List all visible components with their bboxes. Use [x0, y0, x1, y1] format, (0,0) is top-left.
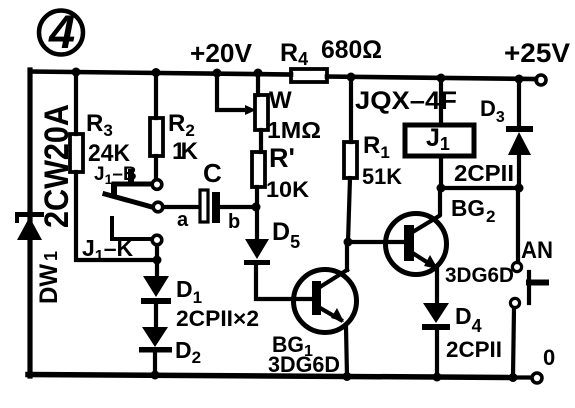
svg-text:24K: 24K [88, 140, 131, 167]
svg-text:1MΩ: 1MΩ [267, 117, 321, 143]
svg-text:3DG6D: 3DG6D [268, 352, 340, 377]
svg-text:W: W [269, 87, 292, 114]
svg-text:BG: BG [451, 195, 485, 221]
svg-text:1K: 1K [172, 138, 199, 165]
svg-text:DW: DW [35, 264, 63, 304]
svg-text:2CPII×2: 2CPII×2 [176, 306, 259, 331]
svg-text:+20V: +20V [190, 38, 253, 68]
svg-text:AN: AN [521, 237, 553, 264]
svg-text:C: C [203, 158, 222, 188]
svg-text:10K: 10K [266, 177, 309, 202]
svg-text:2CPII: 2CPII [454, 160, 514, 186]
svg-text:680Ω: 680Ω [321, 36, 382, 64]
svg-text:J1–B: J1–B [94, 164, 137, 187]
svg-text:JQX–4F: JQX–4F [355, 87, 457, 115]
svg-text:2: 2 [486, 207, 495, 226]
svg-text:3DG6D: 3DG6D [445, 264, 514, 287]
svg-text:b: b [228, 211, 240, 233]
svg-text:J1–K: J1–K [82, 235, 133, 265]
svg-text:Rʹ: Rʹ [269, 143, 295, 173]
svg-text:4: 4 [48, 5, 75, 58]
svg-text:0: 0 [543, 345, 555, 370]
svg-text:a: a [177, 209, 189, 231]
svg-text:1: 1 [41, 251, 61, 261]
svg-text:+25V: +25V [504, 38, 570, 68]
svg-text:51K: 51K [362, 164, 402, 189]
svg-text:2CPII: 2CPII [446, 337, 502, 362]
svg-text:2CW20A: 2CW20A [38, 104, 76, 228]
